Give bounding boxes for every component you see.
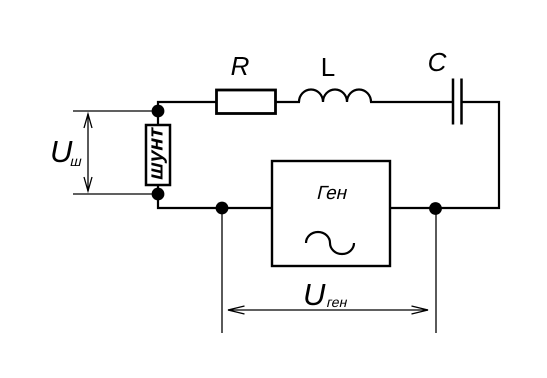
svg-text:U: U xyxy=(303,277,326,312)
resistor R xyxy=(217,90,276,114)
svg-text:Ген: Ген xyxy=(315,183,350,204)
node: junction dot right generator terminal xyxy=(429,202,442,215)
node: junction dot top of shunt xyxy=(152,105,165,118)
dimension arrow Uш (vertical double-headed) xyxy=(84,114,92,191)
measurement line top (Uш) xyxy=(73,110,158,112)
node: junction dot bottom of shunt xyxy=(152,188,165,201)
node: junction dot left generator terminal xyxy=(216,202,229,215)
shunt resistor xyxy=(146,125,170,185)
svg-text:C: C xyxy=(428,47,447,77)
wire capacitor right, down right side xyxy=(390,102,499,208)
svg-text:R: R xyxy=(231,51,250,81)
svg-text:шунт: шунт xyxy=(144,125,168,183)
svg-text:L: L xyxy=(321,52,335,82)
inductor L xyxy=(299,90,371,103)
measurement line bottom (Uш) xyxy=(73,193,158,195)
wire shunt bottom to generator (bottom bus left) xyxy=(158,184,271,208)
generator U1 box xyxy=(272,161,390,266)
wire inductor to capacitor xyxy=(370,101,452,103)
wire resistor to inductor xyxy=(275,101,300,103)
extension line below left generator node xyxy=(221,208,223,333)
extension line below right generator node xyxy=(435,208,437,333)
sine symbol inside generator xyxy=(306,232,354,254)
dimension arrow Uген (horizontal double-headed) xyxy=(228,306,428,314)
svg-text:ген: ген xyxy=(325,295,349,311)
capacitor C xyxy=(453,79,462,125)
wire top-left corner down to shunt xyxy=(158,102,217,125)
